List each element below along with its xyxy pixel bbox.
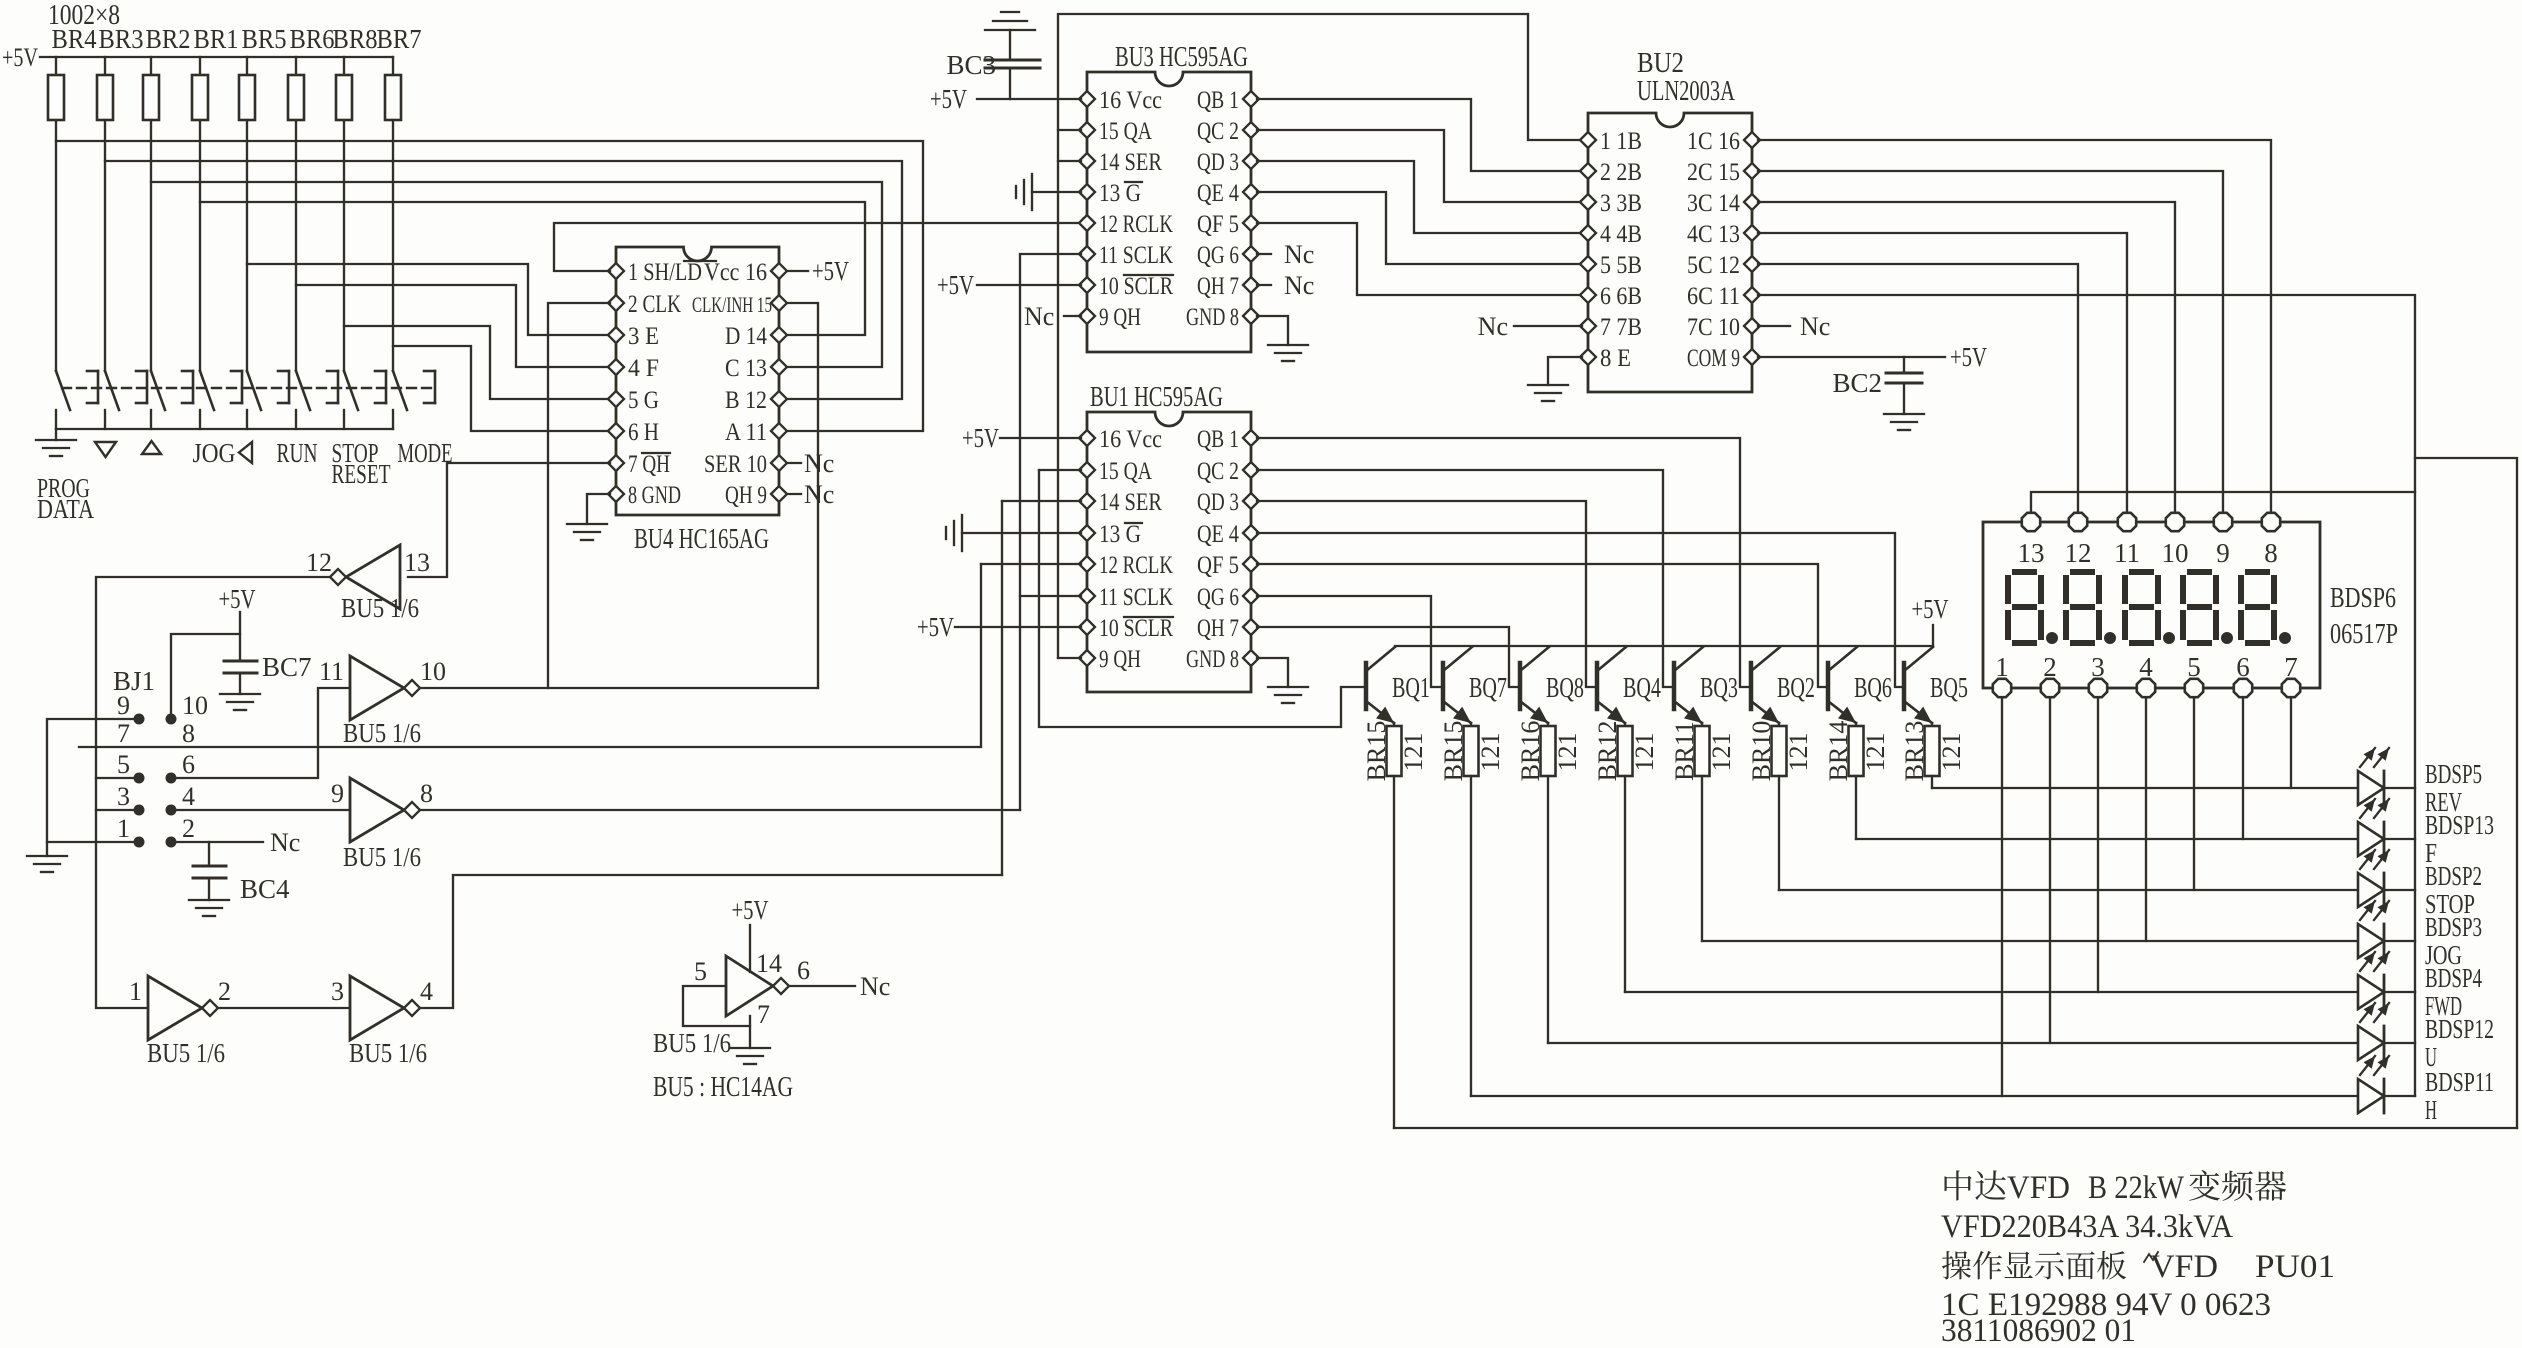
wire +5V to BU3 Vcc16 [977, 98, 1081, 100]
svg-text:BR11: BR11 [1670, 721, 1699, 781]
BJ1 pin 3 [134, 805, 145, 816]
ground at inverter F [730, 1047, 770, 1049]
BU3 pin 12 RCLK [1079, 215, 1095, 231]
switch S1 column wire [55, 120, 57, 371]
wire LED row U [1548, 1042, 2415, 1044]
BU1 pin 11 SCLK [1079, 588, 1095, 604]
svg-text:H: H [2425, 1095, 2437, 1125]
BU2 pin 3 3B [1580, 194, 1596, 210]
svg-text:BC3: BC3 [946, 50, 996, 80]
BU3 pin 15 QA [1079, 122, 1095, 138]
switch S7 [344, 371, 358, 410]
svg-text:QE 4: QE 4 [1197, 521, 1239, 548]
svg-text:16 Vcc: 16 Vcc [1099, 87, 1162, 114]
svg-text:Nc: Nc [860, 972, 890, 1001]
BU1 pin GND 8 [1243, 650, 1259, 666]
svg-text:BU4 HC165AG: BU4 HC165AG [634, 524, 769, 555]
BU4 pin 5 5 G [608, 391, 624, 407]
svg-text:QE 4: QE 4 [1197, 180, 1239, 207]
wire BU2 2C15 to display pin9 [1758, 171, 2223, 511]
svg-text:4: 4 [182, 782, 195, 811]
svg-text:121: 121 [1476, 733, 1505, 772]
overline BU4 SH/LD [684, 260, 716, 262]
svg-text:8: 8 [420, 779, 433, 808]
BJ1 pin 6 [166, 773, 177, 784]
switch S5 column wire [246, 120, 248, 371]
svg-text:BQ6: BQ6 [1854, 673, 1892, 704]
BU2 pin 7C 10 [1744, 318, 1760, 334]
display bottom pin 2 [2041, 679, 2059, 697]
svg-text:2: 2 [218, 977, 231, 1006]
wire display pin to LED row y=788 [2290, 699, 2292, 788]
up-arrow key symbol [142, 441, 161, 454]
BU2 pin 1C 16 [1744, 132, 1760, 148]
svg-text:3: 3 [117, 782, 130, 811]
LED BDSP13 F [2358, 822, 2384, 856]
BU3 pin QD 3 [1243, 153, 1259, 169]
wire inverter B input from BJ1 6 [177, 688, 350, 778]
svg-text:5: 5 [117, 750, 130, 779]
svg-text:QH 7: QH 7 [1197, 615, 1239, 642]
svg-text:BR6: BR6 [290, 24, 335, 54]
svg-text:BR5: BR5 [242, 24, 287, 54]
BU3 pin QC 2 [1243, 122, 1259, 138]
svg-text:121: 121 [1399, 733, 1428, 772]
wire BR4 column to BU4 pin A11 [56, 141, 923, 431]
svg-text:QB 1: QB 1 [1197, 87, 1239, 114]
svg-text:BU1 HC595AG: BU1 HC595AG [1090, 382, 1223, 413]
BU4 pin A 11 [771, 423, 787, 439]
svg-text:VFD220B43A 34.3kVA: VFD220B43A 34.3kVA [1941, 1209, 2233, 1245]
transistor BQ7 [1441, 663, 1446, 709]
wire BR15 to row y=1096 [1470, 776, 1472, 1096]
BU2 pin 1 1B [1580, 132, 1596, 148]
svg-text:BU5 1/6: BU5 1/6 [343, 718, 421, 748]
BU4 pin C 13 [771, 359, 787, 375]
svg-text:Nc: Nc [270, 828, 300, 857]
BJ1 pin 5 [134, 773, 145, 784]
svg-text:13 G: 13 G [1099, 521, 1141, 548]
wire BR15 to row y=1128 [1393, 776, 1395, 1128]
svg-text:13 G: 13 G [1099, 180, 1141, 207]
svg-text:4: 4 [2139, 652, 2153, 682]
svg-text:+5V: +5V [812, 256, 849, 286]
svg-text:+5V: +5V [1950, 342, 1987, 372]
svg-text:QD 3: QD 3 [1197, 489, 1239, 516]
svg-text:3C 14: 3C 14 [1687, 190, 1740, 217]
svg-text:8 E: 8 E [1600, 345, 1631, 372]
svg-text:+5V: +5V [219, 584, 256, 614]
svg-text:16 Vcc: 16 Vcc [1099, 426, 1162, 453]
wire BU2 3C14 to display pin10 [1758, 202, 2175, 511]
svg-text:9: 9 [331, 779, 344, 808]
svg-text:7C 10: 7C 10 [1687, 314, 1740, 341]
svg-text:7: 7 [117, 719, 130, 748]
svg-text:MODE: MODE [398, 438, 453, 468]
display digit 2 decimal point [2104, 632, 2116, 644]
wire BU3 QE4 to BU2 5B [1257, 192, 1582, 264]
svg-text:BR8: BR8 [333, 24, 378, 54]
BU2 7B Nc stub [1514, 325, 1582, 327]
wire BU1 QE4 to BQ5 base [1257, 533, 1904, 687]
wire BU1 QA15 to BQ1 base [1039, 470, 1366, 727]
BU2 7C10 Nc stub [1758, 325, 1790, 327]
svg-text:11: 11 [2114, 538, 2140, 568]
svg-text:1 SH/LD: 1 SH/LD [628, 259, 702, 286]
switch S2 column wire [104, 120, 106, 371]
wire BU3 QD3 to BU2 4B [1257, 161, 1582, 233]
svg-text:JOG: JOG [193, 438, 236, 468]
overline BU1 SCLR pin10 [1124, 616, 1173, 618]
svg-text:3811086902 01: 3811086902 01 [1941, 1313, 2136, 1343]
BU2 pin 4C 13 [1744, 225, 1760, 241]
svg-text:6C 11: 6C 11 [1687, 283, 1740, 310]
wire BR6 column to BU4 pin 4 F [296, 285, 610, 367]
capacitor BC7 [224, 660, 257, 663]
svg-text:4: 4 [420, 977, 433, 1006]
svg-text:11: 11 [319, 657, 344, 686]
svg-text:GND 8: GND 8 [1186, 304, 1239, 331]
resistor BR5 [246, 57, 248, 75]
BJ1 pin 4 [166, 805, 177, 816]
svg-text:8: 8 [2264, 538, 2278, 568]
BJ1 pin 10 [166, 714, 177, 725]
display digit 1 (8) [2015, 569, 2034, 575]
svg-text:Nc: Nc [804, 480, 834, 509]
svg-text:10: 10 [420, 657, 446, 686]
svg-text:COM 9: COM 9 [1687, 345, 1740, 372]
switch S8 [393, 371, 407, 410]
BU4 pin 1 1 SH/LD [608, 263, 624, 279]
svg-text:BU5 : HC14AG: BU5 : HC14AG [653, 1072, 793, 1103]
overline BU4 QH pin7 [642, 452, 670, 454]
transistor BQ2 [1749, 663, 1754, 709]
svg-text:5C 12: 5C 12 [1687, 252, 1740, 279]
transistor BQ1 [1364, 663, 1369, 709]
wire inverter A output to chain vertical [96, 577, 329, 1008]
wire BR7 column to BU4 pin 6 H [393, 346, 610, 431]
svg-text:8: 8 [182, 719, 195, 748]
svg-text:13: 13 [2018, 538, 2045, 568]
svg-text:5: 5 [694, 957, 707, 986]
display top pin 9 [2214, 513, 2232, 531]
svg-text:14 SER: 14 SER [1099, 489, 1162, 516]
svg-text:BQ2: BQ2 [1777, 673, 1815, 704]
svg-text:+5V: +5V [2, 43, 38, 72]
wire RCLK riser from BJ1 row7-8 [79, 564, 981, 747]
BU2 pin 5 5B [1580, 256, 1596, 272]
svg-text:BR4: BR4 [52, 24, 97, 54]
transistor BQ6 [1826, 663, 1831, 709]
wire LED row FWD [1625, 991, 2415, 993]
svg-text:3 E: 3 E [628, 323, 659, 350]
wire display pin to LED row y=839 [2242, 699, 2244, 839]
svg-text:QH 7: QH 7 [1197, 273, 1239, 300]
BU3 QH7 Nc stub [1257, 284, 1271, 286]
svg-text:BQ5: BQ5 [1930, 673, 1968, 704]
inverter BU5-B (pins 11/10) [350, 656, 404, 720]
svg-text:12 RCLK: 12 RCLK [1099, 552, 1173, 579]
wire BU1 GND8 to ground [1257, 658, 1288, 687]
svg-text:121: 121 [1553, 733, 1582, 772]
svg-text:ULN2003A: ULN2003A [1637, 76, 1736, 107]
svg-text:BU5 1/6: BU5 1/6 [349, 1038, 427, 1068]
BU3 pin QF 5 [1243, 215, 1259, 231]
svg-text:BU3 HC595AG: BU3 HC595AG [1115, 42, 1248, 73]
svg-text:BU2: BU2 [1637, 48, 1684, 79]
svg-text:9 QH: 9 QH [1099, 304, 1141, 331]
wire display pin to LED row y=1096 [2001, 699, 2003, 1096]
BU1 pin 16 Vcc [1079, 430, 1095, 446]
wire BR8 column to BU4 pin 5 G [344, 326, 610, 399]
wire +5V to BC7 [239, 612, 241, 661]
ground below BC7 [220, 693, 260, 695]
svg-text:QG 6: QG 6 [1197, 242, 1239, 269]
ground at BU3 GND8 [1268, 344, 1308, 346]
switch S6 column wire [295, 120, 297, 371]
display digit 3 decimal point [2163, 632, 2175, 644]
svg-text:2: 2 [2043, 652, 2057, 682]
svg-text:BR2: BR2 [146, 24, 191, 54]
BU3 QG6 Nc stub [1257, 253, 1271, 255]
svg-text:6: 6 [182, 750, 195, 779]
BU2 pin 7 7B [1580, 318, 1596, 334]
display bottom pin 7 [2282, 679, 2300, 697]
BU2 pin COM 9 [1744, 349, 1760, 365]
wire inverter E output to SER riser [420, 875, 1002, 1008]
wire LED row JOG [1702, 940, 2415, 942]
IC BU3 HC595AG body [1087, 72, 1251, 352]
wire BU4 CLK/INH15 riser [787, 303, 818, 688]
BU1 pin 12 RCLK [1079, 556, 1095, 572]
resistor BR6 [295, 57, 297, 75]
display top pin 13 [2022, 513, 2040, 531]
svg-text:+5V: +5V [917, 612, 954, 642]
wire BR12 to row y=992 [1624, 776, 1626, 992]
wire inverter F output stub [789, 985, 855, 987]
svg-text:BC2: BC2 [1832, 368, 1882, 398]
svg-text:BQ3: BQ3 [1700, 673, 1738, 704]
wire BJ1 10 to +5V [171, 634, 240, 719]
transistor BQ3 [1672, 663, 1677, 709]
svg-text:B 12: B 12 [725, 387, 767, 414]
svg-text:06517P: 06517P [2330, 619, 2398, 650]
wire SER riser from inverter E output [1001, 501, 1003, 875]
wire BU1 QF5 to BQ6 base [1257, 564, 1828, 687]
overline BU1 G pin13 [1125, 522, 1142, 524]
svg-text:5 5B: 5 5B [1600, 252, 1642, 279]
svg-text:121: 121 [1630, 733, 1659, 772]
svg-text:QB 1: QB 1 [1197, 426, 1239, 453]
IC BU1 HC595AG body [1087, 412, 1251, 692]
switch S5 [247, 371, 261, 410]
svg-text:121: 121 [1937, 733, 1966, 772]
svg-text:+5V: +5V [962, 423, 999, 453]
svg-text:+5V: +5V [1912, 594, 1949, 624]
svg-text:BR3: BR3 [99, 24, 144, 54]
svg-text:BQ8: BQ8 [1546, 673, 1584, 704]
resistor BR1 [199, 57, 201, 75]
svg-text:QC 2: QC 2 [1197, 458, 1239, 485]
BU2 pin 6C 11 [1744, 287, 1760, 303]
svg-text:QF 5: QF 5 [1197, 552, 1239, 579]
BU4 pin 6 6 H [608, 423, 624, 439]
wire BU1 QA15 [1039, 469, 1081, 471]
wire BR3 column to BU4 pin B12 [105, 161, 902, 399]
svg-text:BR16: BR16 [1516, 721, 1545, 782]
capacitor BC2 [1903, 357, 1905, 373]
svg-text:BC7: BC7 [262, 652, 312, 682]
BU2 pin 4 4B [1580, 225, 1596, 241]
wire BU1 QG6 to BQ7 base [1257, 596, 1443, 687]
display bottom pin 3 [2089, 679, 2107, 697]
svg-text:RUN: RUN [277, 438, 318, 468]
wire inverter F input loop to ground [683, 986, 750, 1026]
BU1 pin QF 5 [1243, 556, 1259, 572]
svg-text:6: 6 [2236, 652, 2250, 682]
display digit 3 (8) [2132, 569, 2151, 575]
LED BDSP4 FWD [2358, 975, 2384, 1009]
svg-text:Nc: Nc [1478, 312, 1508, 341]
+5V rail wire [40, 56, 393, 58]
wire LED bus to display pin13 [2031, 492, 2415, 511]
display bottom pin 5 [2185, 679, 2203, 697]
BU4 pin D 14 [771, 327, 787, 343]
display top pin 10 [2166, 513, 2184, 531]
wire BU1 QH9 [1058, 657, 1081, 659]
BU3 pin 14 SER [1079, 153, 1095, 169]
svg-text:VFD: VFD [2007, 1170, 2070, 1206]
svg-text:VFD: VFD [2150, 1249, 2218, 1285]
svg-text:2: 2 [182, 814, 195, 843]
BU1 pin QH 7 [1243, 619, 1259, 635]
display bottom pin 6 [2234, 679, 2252, 697]
svg-text:2C 15: 2C 15 [1687, 159, 1740, 186]
BU4 QH9 Nc stub [787, 493, 801, 495]
wire BU1 QC2 to BQ3 base [1257, 470, 1674, 687]
svg-text:BDSP12: BDSP12 [2425, 1014, 2494, 1044]
svg-text:7: 7 [757, 1000, 770, 1029]
BU4 pin B 12 [771, 391, 787, 407]
svg-text:15 QA: 15 QA [1099, 458, 1152, 485]
wire BU3 GND8 to ground [1257, 316, 1288, 345]
svg-text:9 QH: 9 QH [1099, 646, 1141, 673]
overline BU3 G pin13 [1125, 181, 1142, 183]
wire display pin to LED row y=1043 [2049, 699, 2051, 1043]
svg-text:BQ7: BQ7 [1469, 673, 1507, 704]
svg-text:121: 121 [1861, 733, 1890, 772]
inverter BU5-D (pins 1/2) [148, 976, 202, 1040]
ground at BU1 pin13 G [961, 515, 963, 551]
wire BU3 QC2 to BU2 3B [1257, 130, 1582, 202]
wire inverter C input from BJ1 4 [177, 809, 350, 811]
svg-text:7 7B: 7 7B [1600, 314, 1642, 341]
BU4 pin 4 4 F [608, 359, 624, 375]
overline BU3 SCLR pin10 [1124, 274, 1173, 276]
resistor BR15 (BQ1 emitter) [1393, 723, 1395, 726]
BU4 pin SER 10 [771, 455, 787, 471]
svg-text:SER 10: SER 10 [704, 451, 767, 478]
switch common rail [56, 428, 393, 430]
inverter BU5-F (pins 5/6) [726, 956, 773, 1016]
resistor BR8 [343, 57, 345, 75]
svg-text:+5V: +5V [937, 270, 974, 300]
switch S7 column wire [343, 120, 345, 371]
svg-text:BQ1: BQ1 [1392, 673, 1430, 704]
svg-text:121: 121 [1707, 733, 1736, 772]
ground above BC3 [985, 29, 1035, 31]
wire BU1 SER14 [1002, 500, 1081, 502]
BU2 pin 5C 12 [1744, 256, 1760, 272]
wire BU4 pin2 CLK riser [548, 303, 610, 688]
ground at BJ1 [27, 855, 67, 857]
wire LED row REV [1932, 787, 2415, 789]
svg-text:11 SCLK: 11 SCLK [1099, 242, 1173, 269]
wire BU4 pin8 GND [587, 494, 610, 524]
title line 3: operation display panel VFD PU01 [1942, 1251, 1971, 1279]
svg-text:1: 1 [1995, 652, 2009, 682]
BU3 pin QG 6 [1243, 246, 1259, 262]
capacitor BC3 [1009, 68, 1011, 99]
wire BU3 QA15/SER14 vertical to BU1 QH9 and top rail to BU2 1B [1058, 129, 1081, 131]
wire BU3 QB1 to BU2 2B [1257, 99, 1582, 171]
wire +5V riser for rail [1932, 625, 1934, 646]
display digit 1 decimal point [2046, 632, 2058, 644]
wire BJ1 5 stub [96, 777, 139, 779]
BU1 pin 13 G [1079, 525, 1095, 541]
svg-text:BDSP3: BDSP3 [2425, 912, 2482, 942]
wire BU1 RCLK12 [981, 563, 1081, 565]
display top pin 11 [2118, 513, 2136, 531]
wire BJ1 9 to ground [47, 719, 139, 856]
wire BR1 column to BU4 pin D14 [200, 202, 865, 335]
svg-text:12: 12 [2065, 538, 2092, 568]
svg-text:BQ4: BQ4 [1623, 673, 1661, 704]
wire BU1 QH7 to BQ8 base [1257, 627, 1520, 687]
resistor BR16 (BQ8 emitter) [1547, 723, 1549, 726]
capacitor BC4 [208, 842, 210, 866]
svg-text:BU5 1/6: BU5 1/6 [147, 1038, 225, 1068]
svg-text:BR12: BR12 [1593, 721, 1622, 782]
wire BR16 to row y=1043 [1547, 776, 1549, 1043]
wire BU1 QD3 to BQ4 base [1257, 501, 1597, 687]
BU1 pin QE 4 [1243, 525, 1259, 541]
LED BDSP3 JOG [2358, 924, 2384, 958]
svg-text:BU5 1/6: BU5 1/6 [343, 842, 421, 872]
svg-text:Nc: Nc [1284, 240, 1314, 269]
svg-text:3: 3 [2091, 652, 2105, 682]
wire inverter F pin7 to ground [749, 1016, 751, 1048]
svg-text:BDSP5: BDSP5 [2425, 759, 2482, 789]
left-arrow key symbol [239, 442, 252, 463]
svg-text:A 11: A 11 [725, 419, 767, 446]
wire BU2 4C13 to display pin11 [1758, 233, 2127, 511]
wire BR5 column to BU4 pin 3 E [247, 264, 610, 335]
resistor BR2 [150, 57, 152, 75]
transistor BQ8 [1518, 663, 1523, 709]
switch S2 [105, 371, 119, 410]
wire display pin to LED row y=890 [2193, 699, 2195, 890]
down-arrow key symbol [95, 442, 116, 457]
svg-text:4C 13: 4C 13 [1687, 221, 1740, 248]
display digit 5 (8) [2248, 569, 2267, 575]
svg-text:BU5 1/6: BU5 1/6 [341, 593, 419, 623]
resistor BR3 [104, 57, 106, 75]
wire BJ1 1 to ground [47, 841, 139, 843]
wire +5V to BU1 SCLR10 [955, 626, 1081, 628]
wire BU4 Vcc16 to +5V [787, 270, 808, 272]
BU4 pin 3 3 E [608, 327, 624, 343]
